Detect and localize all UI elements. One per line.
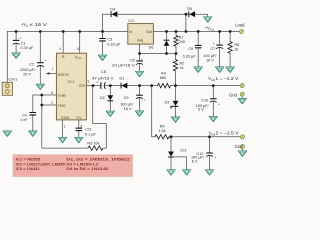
IC U1 555 timer IC1 xyxy=(51,47,89,129)
diode D2 xyxy=(100,95,113,101)
diode D4 xyxy=(110,8,117,18)
svg-text:THR: THR xyxy=(58,93,66,98)
ground (C11) xyxy=(75,137,84,143)
ground (C7) xyxy=(215,67,224,73)
wire IC1 pin6 THR xyxy=(33,94,57,96)
capacitor C12 xyxy=(191,152,216,164)
node junction dots on Adj tie line xyxy=(138,52,177,55)
wire C2 branch xyxy=(39,32,41,85)
ground (C1) xyxy=(12,53,21,59)
capacitor C8 xyxy=(92,70,114,89)
svg-text:D4: D4 xyxy=(110,8,115,12)
node junction dots on +Vin rail xyxy=(15,30,104,33)
capacitor C4 xyxy=(20,113,36,122)
svg-text:D4 to D6 = 1N4148: D4 to D6 = 1N4148 xyxy=(66,166,109,171)
capacitor C5 xyxy=(112,58,143,68)
wire R3 loop (TRG node to Out node) xyxy=(42,86,107,149)
svg-text:C4: C4 xyxy=(22,113,27,117)
svg-text:2 = –2.5 V: 2 = –2.5 V xyxy=(216,131,239,136)
node junction dots on +Vout line xyxy=(165,30,231,33)
ground (C6) xyxy=(194,67,203,73)
wire D2 branch xyxy=(109,86,111,112)
svg-text:≤ 16 V: ≤ 16 V xyxy=(30,22,47,27)
resistor R4 xyxy=(157,71,170,87)
svg-text:1 nF: 1 nF xyxy=(20,118,28,122)
wire R6 branch xyxy=(229,32,231,67)
node junction dot on D4-D5 line xyxy=(185,13,188,16)
svg-text:Gnd: Gnd xyxy=(235,144,244,149)
svg-text:16 V: 16 V xyxy=(124,107,132,111)
svg-text:In: In xyxy=(129,29,132,34)
ground (Gnd terminal 2) xyxy=(238,151,247,157)
svg-text:6: 6 xyxy=(51,91,53,95)
svg-text:25 V: 25 V xyxy=(23,73,31,77)
svg-text:+: + xyxy=(213,42,215,46)
capacitor C1 xyxy=(13,37,34,50)
wire IC1 pin1 GND stub xyxy=(62,120,64,137)
wire IC1 pin7 stub xyxy=(49,73,57,75)
svg-text:C7: C7 xyxy=(210,47,215,51)
svg-text:C3: C3 xyxy=(107,38,112,42)
svg-text:C8: C8 xyxy=(101,70,106,74)
svg-text:4: 4 xyxy=(59,47,61,51)
ground (D3) xyxy=(171,117,180,123)
svg-text:2k: 2k xyxy=(234,48,238,52)
svg-text:6 V: 6 V xyxy=(192,159,198,163)
svg-text:+: + xyxy=(97,80,99,84)
svg-text:680: 680 xyxy=(160,76,166,80)
svg-text:Gnd: Gnd xyxy=(229,93,238,98)
svg-text:+: + xyxy=(141,58,143,62)
svg-text:CV: CV xyxy=(76,115,82,120)
svg-text:Adj: Adj xyxy=(137,38,143,43)
svg-text:100 µF/: 100 µF/ xyxy=(120,102,134,106)
svg-text:C9: C9 xyxy=(124,96,129,100)
wire D4-D5 junction riser xyxy=(185,14,187,31)
diode D5 xyxy=(187,7,195,17)
svg-text:D5: D5 xyxy=(187,7,192,11)
wire 555 out line xyxy=(86,85,240,87)
svg-text:D6: D6 xyxy=(149,45,154,49)
resistor R3 xyxy=(87,141,103,150)
capacitor C3 xyxy=(99,38,121,47)
ground (C3) xyxy=(98,55,107,61)
svg-text:Load: Load xyxy=(235,23,245,28)
svg-text:IC3 = LM431: IC3 = LM431 xyxy=(16,166,41,171)
wire D4 riser / C3 branch xyxy=(102,14,104,55)
svg-text:1: 1 xyxy=(64,124,66,128)
wire IC3 branch xyxy=(170,137,172,170)
svg-text:+: + xyxy=(214,155,216,159)
ground (IC3 ref) xyxy=(182,170,191,176)
ground (Gnd terminal 1) xyxy=(238,98,247,104)
wire IC2 Adj pin stub xyxy=(139,44,141,53)
svg-text:C10: C10 xyxy=(201,99,208,103)
legend box xyxy=(13,155,133,177)
svg-text:3: 3 xyxy=(87,79,89,83)
svg-text:Con1: Con1 xyxy=(8,78,17,82)
wire C9 branch xyxy=(139,86,141,111)
svg-text:1 = –1.2 V: 1 = –1.2 V xyxy=(215,76,238,81)
wire D6 branch xyxy=(166,32,168,54)
wire R2 branch xyxy=(175,54,177,86)
svg-text:TRG: TRG xyxy=(58,103,66,108)
connector Con1 xyxy=(2,78,17,96)
terminal Load xyxy=(240,30,244,34)
svg-text:C1: C1 xyxy=(21,41,26,45)
svg-text:C2: C2 xyxy=(29,63,34,67)
svg-text:1k: 1k xyxy=(180,66,184,70)
svg-text:D2: D2 xyxy=(100,96,105,100)
wire IC1 pin4 stub xyxy=(62,32,64,54)
wire R1 branch xyxy=(175,32,177,54)
wire IC1 pin8 stub xyxy=(79,32,81,54)
capacitor C7 xyxy=(203,42,223,63)
ground (D2) xyxy=(106,111,115,117)
svg-text:DSCH: DSCH xyxy=(58,72,69,77)
svg-text:C11: C11 xyxy=(85,128,92,132)
resistor R2 xyxy=(173,60,184,71)
node junction dots on THR/TRG tie xyxy=(40,94,43,107)
svg-text:+: + xyxy=(143,98,145,102)
svg-text:IC3: IC3 xyxy=(180,148,186,152)
wire Adj tie line xyxy=(140,53,176,55)
IC U2 LM317 regulator IC2 xyxy=(128,18,154,44)
diode D1 xyxy=(120,76,128,88)
svg-text:8: 8 xyxy=(77,47,79,51)
wire IC1 pin5 CV / C11 xyxy=(78,120,80,137)
wire THR-TRG tie xyxy=(41,95,43,105)
wire +Vin top rail xyxy=(7,31,128,33)
capacitor C6 xyxy=(183,45,202,58)
terminal Vadj2 xyxy=(240,135,244,139)
wire C7 branch xyxy=(219,32,221,67)
diode D6 xyxy=(149,40,170,49)
svg-text:47 µF/16 V: 47 µF/16 V xyxy=(92,76,114,80)
wire C4 branch xyxy=(32,95,34,131)
ground (Con1) xyxy=(3,131,12,137)
svg-text:IC2: IC2 xyxy=(128,18,134,23)
capacitor C11 xyxy=(76,128,97,137)
svg-text:D3: D3 xyxy=(164,101,169,105)
svg-text:0.33 µF: 0.33 µF xyxy=(183,54,197,58)
terminal Gnd 2 xyxy=(240,145,244,149)
svg-text:D1: D1 xyxy=(120,76,125,80)
wire C12 branch xyxy=(209,137,211,170)
svg-text:0.33 µF: 0.33 µF xyxy=(107,43,121,47)
svg-text:7: 7 xyxy=(52,68,54,72)
wire IC3 ref loop xyxy=(174,157,187,170)
capacitor C9 xyxy=(120,95,145,111)
ground (C12) xyxy=(205,170,214,176)
svg-text:1.3k: 1.3k xyxy=(158,129,165,133)
svg-text:2: 2 xyxy=(51,101,53,105)
svg-text:Out: Out xyxy=(146,29,153,34)
svg-text:R1: R1 xyxy=(179,35,184,39)
capacitor C10 xyxy=(196,99,220,112)
ground (IC1 pin1) xyxy=(58,137,67,143)
svg-text:0.33 µF: 0.33 µF xyxy=(20,46,34,50)
svg-text:Out: Out xyxy=(79,83,86,88)
svg-text:C6: C6 xyxy=(188,47,193,51)
ground (C5) xyxy=(135,71,144,77)
node junction dots on 555 out line xyxy=(92,84,215,87)
svg-text:10 µF/16 V: 10 µF/16 V xyxy=(112,63,136,67)
svg-text:240: 240 xyxy=(179,40,185,44)
ground (C9) xyxy=(135,111,144,117)
svg-text:0.1 µF: 0.1 µF xyxy=(85,132,97,136)
wire IC1 pin2 TRG xyxy=(42,104,57,106)
ground (C4) xyxy=(29,131,38,137)
svg-text:C5: C5 xyxy=(130,58,135,62)
resistor R6 xyxy=(228,42,239,54)
wire D3 branch xyxy=(175,86,177,117)
node junction dots on Vadj2 line xyxy=(170,135,211,138)
ground (IC3 anode) xyxy=(167,170,176,176)
wire R5 drop xyxy=(152,86,241,137)
terminal Gnd 1 xyxy=(240,92,244,96)
wire Con1 riser xyxy=(6,32,8,83)
svg-text:R6: R6 xyxy=(234,43,239,47)
ground (R6) xyxy=(226,67,235,73)
ground (C10) xyxy=(209,116,218,122)
svg-text:6 V: 6 V xyxy=(198,108,204,112)
wire C1 branch xyxy=(15,32,17,53)
svg-text:R5: R5 xyxy=(160,124,165,128)
svg-text:IC1: IC1 xyxy=(68,79,74,84)
wire C5 branch xyxy=(139,54,141,72)
svg-text:GND: GND xyxy=(61,115,70,120)
wire C10 branch xyxy=(212,86,214,117)
resistor R1 xyxy=(174,35,185,46)
svg-text:2200 µF/: 2200 µF/ xyxy=(20,68,36,72)
diode D3 (LM285-1.2) xyxy=(164,101,178,109)
IC U3 shunt reference IC3 (LM431) xyxy=(168,148,186,157)
wire C6 branch xyxy=(197,32,199,67)
wire IC2 out line to Load xyxy=(153,31,239,33)
wire Gnd terminal 1 stub xyxy=(241,96,243,98)
svg-text:R2: R2 xyxy=(180,62,185,66)
capacitor C2 xyxy=(20,58,47,76)
svg-text:+: + xyxy=(45,58,47,62)
svg-text:+: + xyxy=(20,37,22,41)
svg-text:R3 10k: R3 10k xyxy=(87,141,99,145)
ground (D5 line end) xyxy=(203,17,212,23)
svg-text:100 µF/: 100 µF/ xyxy=(203,54,217,58)
wire D4-D5 top line xyxy=(103,14,208,17)
resistor R5 xyxy=(155,124,169,139)
ground (C2) xyxy=(36,84,45,90)
svg-text:R4: R4 xyxy=(161,71,166,75)
svg-text:16 V: 16 V xyxy=(206,58,214,62)
wire pin7 arrowhead xyxy=(46,72,50,75)
terminal Vadj1 xyxy=(240,84,244,88)
wire Gnd terminal 2 stub xyxy=(241,149,243,151)
svg-text:+: + xyxy=(218,103,220,107)
svg-text:R: R xyxy=(62,54,65,59)
